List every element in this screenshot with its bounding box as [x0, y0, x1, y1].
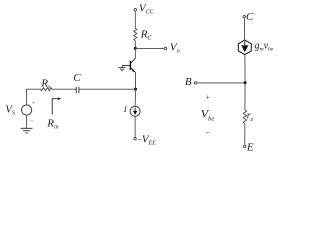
wire junction to re — [244, 83, 246, 110]
wire C to emitter node — [79, 88, 136, 90]
transistor Q1 — [130, 58, 135, 72]
svg-text:C: C — [73, 72, 81, 84]
svg-text:I: I — [123, 105, 127, 114]
wire B rail — [197, 82, 245, 84]
node VCC terminal — [134, 9, 136, 11]
wire emitter — [135, 73, 137, 90]
wire C to source — [243, 18, 245, 40]
svg-text:C: C — [246, 11, 254, 23]
wire RS to C — [52, 88, 76, 90]
capacitor C — [76, 87, 79, 93]
node Vo terminal — [164, 47, 166, 49]
source VS — [22, 105, 32, 115]
wire RC to collector node — [134, 41, 136, 49]
arrow Rin — [52, 97, 61, 114]
wire current source to VEE — [134, 116, 136, 137]
dependent source gm vbe — [238, 40, 251, 55]
wire to Vo — [135, 47, 164, 49]
wire source to B-rail junction — [244, 55, 246, 83]
resistor RS — [41, 88, 53, 91]
node B terminal — [194, 82, 196, 84]
svg-text:−: − — [30, 118, 34, 124]
node E terminal — [244, 145, 246, 147]
node C terminal — [243, 16, 245, 18]
svg-text:+: + — [32, 101, 36, 107]
svg-text:B: B — [185, 76, 192, 88]
resistor re — [243, 110, 246, 124]
ground at base — [118, 66, 125, 71]
node emitter junction — [134, 88, 137, 91]
ground at VS — [21, 128, 33, 133]
svg-text:E: E — [246, 142, 254, 154]
wire VS top — [27, 89, 41, 105]
wire emitter node to current source — [134, 89, 136, 106]
svg-text:+: + — [205, 94, 210, 102]
wire collector — [134, 48, 136, 58]
wire re to E — [244, 124, 246, 144]
node VEE terminal — [134, 138, 136, 140]
wire VS bottom — [26, 115, 28, 128]
current source I — [130, 106, 140, 116]
resistor RC — [134, 29, 137, 41]
wire VCC to RC — [134, 11, 136, 28]
wire base lead — [122, 65, 130, 67]
svg-text:−: − — [205, 128, 210, 137]
node collector junction — [134, 47, 137, 50]
node B junction — [244, 81, 247, 84]
